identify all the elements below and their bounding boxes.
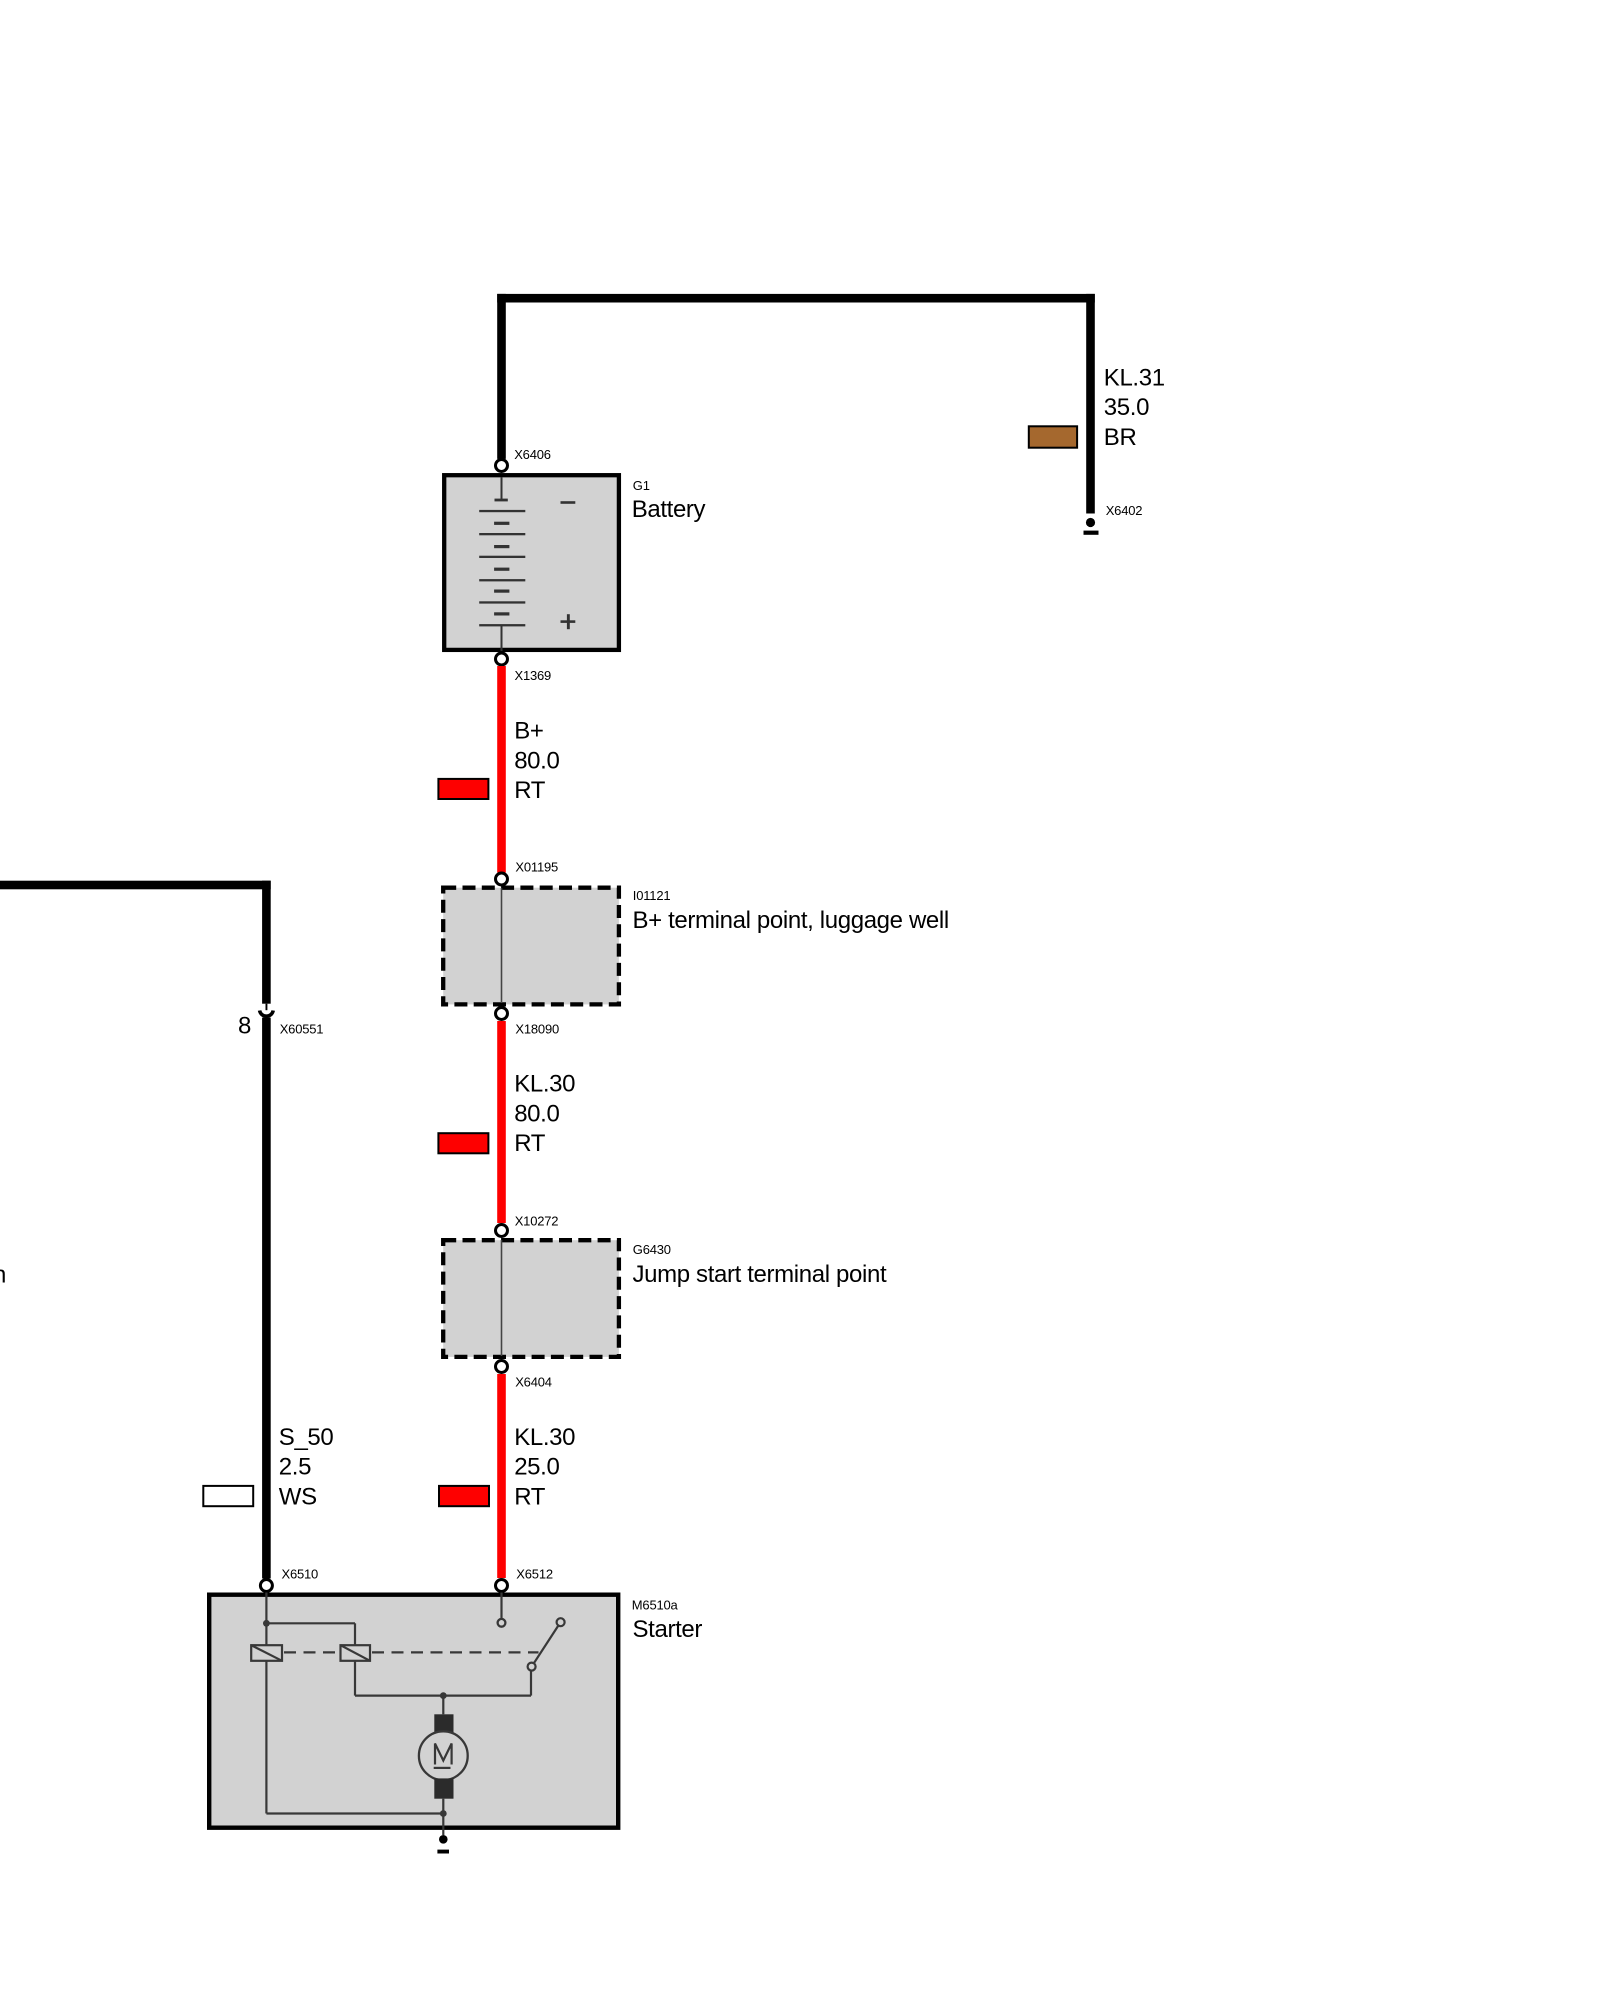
label B+ 80.0 RT <box>514 718 559 804</box>
svg-text:X6404: X6404 <box>515 1375 552 1390</box>
svg-text:X6406: X6406 <box>514 447 551 462</box>
wire left horizontal <box>0 881 271 890</box>
relay coil K1 <box>251 1645 282 1661</box>
motor M brush bottom <box>434 1778 453 1798</box>
node X6510 <box>260 1580 272 1592</box>
svg-text:KL.30: KL.30 <box>514 1424 575 1451</box>
svg-text:80.0: 80.0 <box>514 1100 559 1127</box>
motor M <box>419 1731 468 1780</box>
battery G1 <box>444 475 619 651</box>
wire relay K2 down <box>354 1661 356 1696</box>
terminal point I01121 dashed box <box>443 888 619 1005</box>
colour swatch BR brown <box>1029 426 1077 447</box>
svg-text:BR: BR <box>1104 424 1137 451</box>
node X6406 <box>496 460 508 472</box>
junction dot B <box>440 1692 447 1699</box>
wire S_50 lower <box>262 1018 271 1579</box>
node X18090 <box>496 1008 508 1020</box>
svg-text:2.5: 2.5 <box>279 1454 311 1481</box>
wire junction to motor top <box>442 1696 444 1715</box>
svg-text:B+: B+ <box>514 718 543 745</box>
svg-text:KL.30: KL.30 <box>514 1071 575 1098</box>
svg-text:X6512: X6512 <box>516 1566 553 1581</box>
colour swatch RT red 2 <box>438 1133 488 1153</box>
wire junction to relay K2 branch horizontal <box>266 1622 355 1624</box>
svg-text:80.0: 80.0 <box>514 747 559 774</box>
svg-text:RT: RT <box>514 1130 546 1157</box>
svg-text:WS: WS <box>279 1483 317 1510</box>
junction dot A <box>263 1620 270 1627</box>
wire KL.30 red 2 <box>497 1374 506 1578</box>
svg-text:I01121: I01121 <box>633 888 671 903</box>
relay coil K2 <box>341 1645 371 1661</box>
node X1369 <box>496 653 508 665</box>
label KL.31 35.0 BR <box>1104 365 1165 452</box>
connector X60551 <box>260 1004 274 1017</box>
svg-text:X60551: X60551 <box>280 1022 324 1037</box>
svg-text:X6402: X6402 <box>1106 503 1143 518</box>
colour swatch RT red 1 <box>438 779 488 799</box>
wire X6512 to fixed contact <box>500 1593 502 1620</box>
wire battery negative up segment <box>497 294 506 459</box>
jump start terminal point G6430 dashed box <box>443 1240 619 1357</box>
svg-text:X01195: X01195 <box>515 859 558 874</box>
node X6512 <box>496 1580 508 1592</box>
wire top horizontal <box>497 294 1095 303</box>
svg-text:35.0: 35.0 <box>1104 394 1149 421</box>
label KL.30 25.0 RT <box>514 1424 575 1511</box>
switch contact fixed <box>498 1619 506 1627</box>
starter M6510a box <box>209 1595 618 1828</box>
node X01195 <box>496 873 508 885</box>
wire motor bottom to ground <box>442 1799 444 1835</box>
svg-text:B+ terminal point, luggage wel: B+ terminal point, luggage well <box>633 907 949 934</box>
label KL.30 80.0 RT <box>514 1071 575 1158</box>
ground X6402 <box>1084 518 1099 535</box>
wire junction to relay K1 <box>265 1623 267 1645</box>
wire KL.30 red 1 <box>497 1021 506 1223</box>
colour swatch RT red 3 <box>439 1486 489 1506</box>
wire K2 to motor and switch horizontal <box>355 1694 531 1696</box>
motor M brush top <box>434 1714 453 1733</box>
svg-text:X1369: X1369 <box>515 668 552 683</box>
svg-text:n: n <box>0 1262 6 1289</box>
svg-text:X10272: X10272 <box>515 1214 559 1229</box>
dashed actuation link <box>284 1651 539 1653</box>
wire up to switch pivot <box>530 1670 532 1695</box>
svg-text:Starter: Starter <box>633 1616 703 1643</box>
wire B+ red <box>497 666 506 873</box>
label S_50 2.5 WS <box>279 1424 334 1511</box>
svg-text:M6510a: M6510a <box>632 1598 679 1613</box>
colour swatch WS white <box>203 1486 253 1506</box>
svg-text:KL.31: KL.31 <box>1104 365 1165 392</box>
svg-text:G1: G1 <box>633 478 650 493</box>
wire bottom rail horizontal <box>266 1812 443 1814</box>
svg-text:RT: RT <box>514 777 546 804</box>
node X10272 <box>496 1225 508 1237</box>
wire KL.31 down to ground <box>1086 294 1095 514</box>
node X6404 <box>496 1361 508 1373</box>
wire relay K1 to bottom rail <box>265 1661 267 1814</box>
ground starter <box>437 1835 449 1854</box>
wire X6510 into starter <box>265 1593 267 1624</box>
svg-text:25.0: 25.0 <box>514 1454 559 1481</box>
svg-text:8: 8 <box>238 1013 251 1040</box>
svg-text:G6430: G6430 <box>633 1242 671 1257</box>
wire branch down to relay K2 <box>354 1623 356 1646</box>
svg-text:X6510: X6510 <box>282 1566 319 1581</box>
svg-text:X18090: X18090 <box>515 1021 559 1036</box>
svg-text:RT: RT <box>514 1483 546 1510</box>
svg-text:S_50: S_50 <box>279 1424 334 1451</box>
switch blade <box>528 1618 565 1670</box>
wire left vertical upper <box>262 881 271 1004</box>
junction dot C <box>440 1810 447 1817</box>
svg-text:Jump start terminal point: Jump start terminal point <box>633 1261 887 1288</box>
svg-text:Battery: Battery <box>632 496 706 523</box>
